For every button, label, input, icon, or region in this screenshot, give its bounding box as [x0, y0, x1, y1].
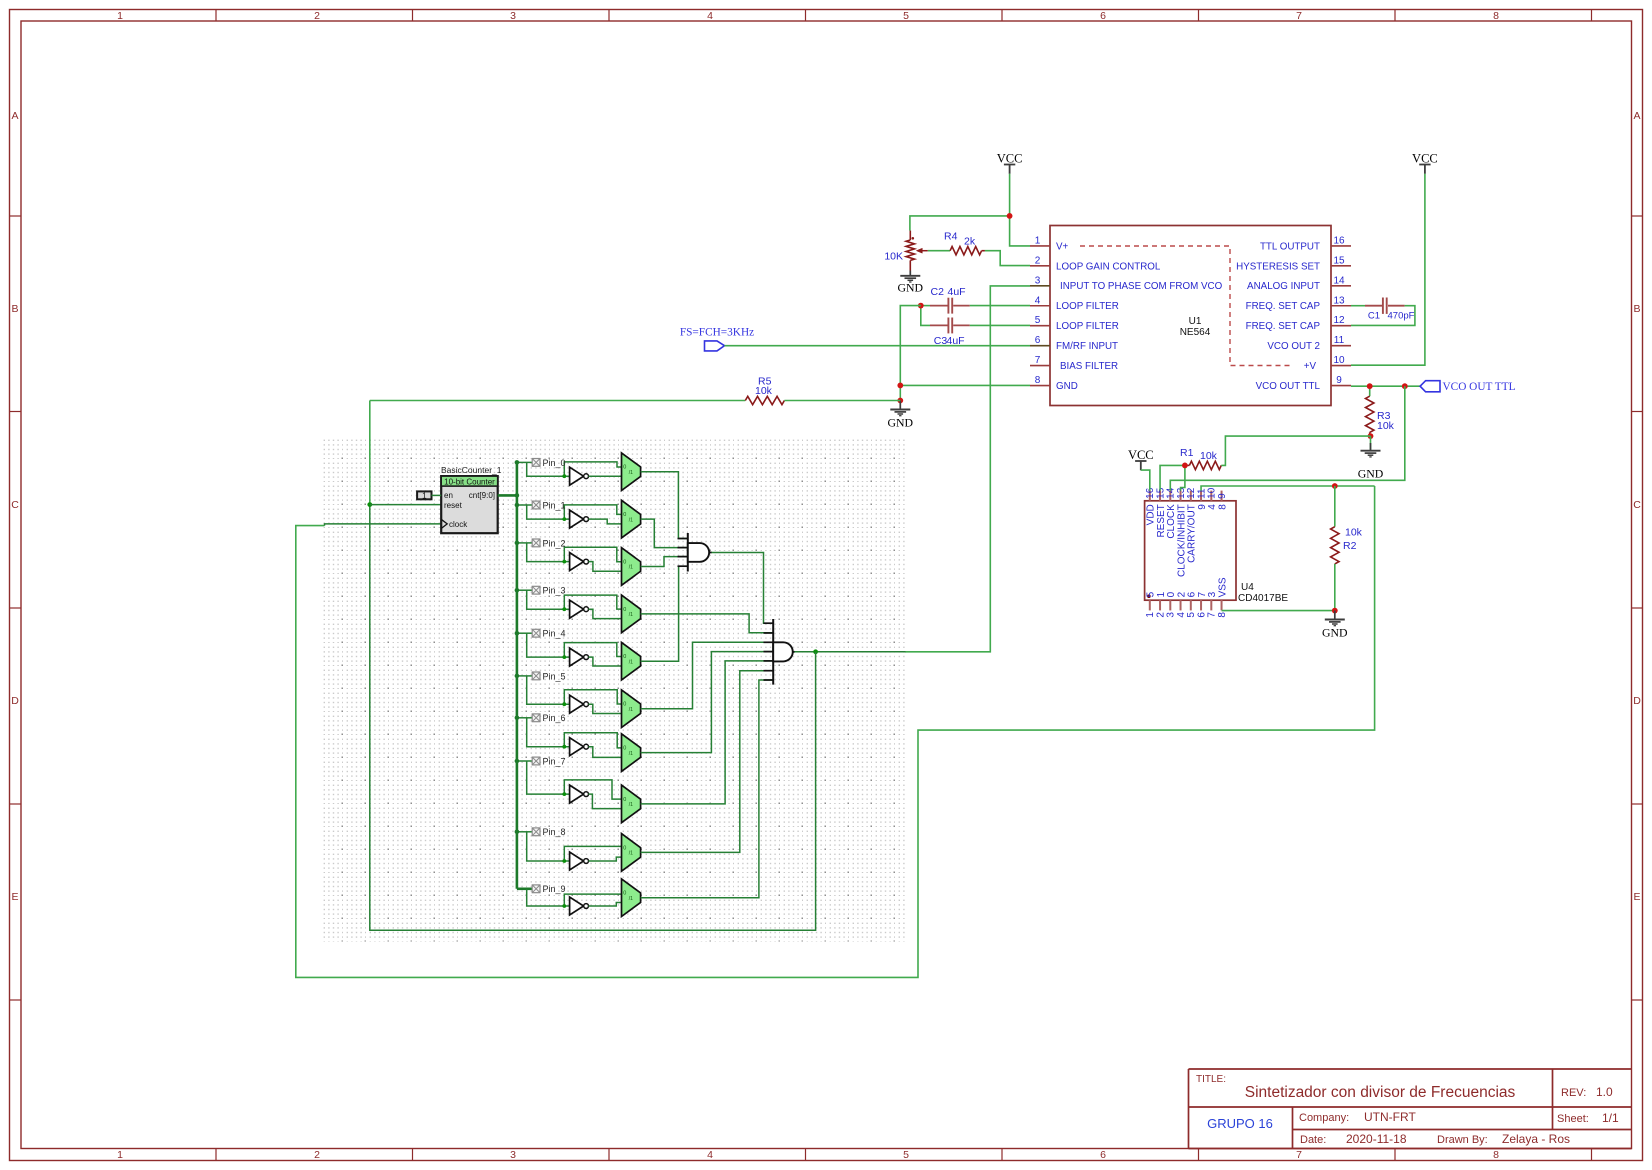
power VCC symbol (U4): [1128, 448, 1154, 470]
svg-text:GRUPO 16: GRUPO 16: [1207, 1116, 1273, 1131]
svg-text:VSS: VSS: [1217, 577, 1228, 597]
junction node R2 top: [1332, 483, 1338, 489]
U1 pin 12 (FREQ. SET CAP): [1246, 315, 1351, 332]
svg-text:10-bit Counter: 10-bit Counter: [444, 477, 495, 486]
wire C-net down to GND / U1 pin 8: [900, 306, 1030, 401]
wire mux1 output: [641, 519, 688, 547]
svg-text:0: 0: [623, 702, 626, 708]
svg-text:U4: U4: [1241, 582, 1254, 593]
multiplexer row 1: [622, 500, 641, 538]
U4 pin 15 (RESET) top: [1155, 487, 1166, 537]
svg-text:/1: /1: [629, 565, 633, 571]
svg-text:VCC: VCC: [997, 152, 1023, 166]
svg-text:8: 8: [1493, 1149, 1499, 1161]
U4 pin 5 (6) bottom: [1186, 591, 1197, 617]
svg-text:en: en: [444, 491, 453, 500]
pin symbol Pin_1: [532, 500, 565, 510]
svg-text:FREQ. SET CAP: FREQ. SET CAP: [1246, 301, 1321, 312]
svg-text:/1: /1: [629, 707, 633, 713]
svg-text:FREQ. SET CAP: FREQ. SET CAP: [1246, 321, 1321, 332]
wire 1-box to en: [432, 494, 442, 496]
svg-text:2: 2: [314, 1149, 320, 1161]
multiplexer row 5: [622, 690, 641, 728]
svg-text:Pin_2: Pin_2: [543, 538, 566, 548]
svg-text:8: 8: [1217, 504, 1228, 510]
svg-text:GND: GND: [888, 416, 914, 430]
inverter (NOT gate) row 9: [570, 897, 589, 915]
U4 pin 6 (7) bottom: [1196, 591, 1207, 617]
inverter (NOT gate) row 5: [570, 695, 589, 713]
svg-text:Drawn By:: Drawn By:: [1437, 1134, 1488, 1146]
svg-text:2: 2: [1035, 255, 1041, 266]
pin symbol Pin_2: [532, 538, 565, 548]
multiplexer row 2: [622, 548, 641, 586]
svg-text:1/1: 1/1: [1602, 1111, 1619, 1125]
wire inverter out row 0: [589, 475, 622, 477]
wire U4 pin 14 CLOCK to VCO junction: [1170, 386, 1405, 490]
junction node bus row 3: [515, 588, 520, 593]
U1 pin 10 (+V): [1304, 355, 1351, 372]
wire VCC to U1 pin 1 and pot: [910, 174, 1030, 246]
svg-text:0: 0: [623, 607, 626, 613]
counter IC U4 CD4017BE body: [1145, 501, 1289, 604]
junction node bus row 4: [515, 631, 520, 636]
wire VCC to U1 pin 10: [1351, 174, 1425, 365]
svg-text:INPUT TO PHASE COM FROM VCO: INPUT TO PHASE COM FROM VCO: [1060, 281, 1223, 292]
svg-text:Pin_1: Pin_1: [543, 500, 566, 510]
U4 pin 4 (2) bottom: [1176, 591, 1187, 617]
svg-text:0: 0: [623, 559, 626, 565]
svg-text:Date:: Date:: [1300, 1134, 1326, 1146]
title block: [1189, 1069, 1632, 1149]
svg-text:8: 8: [1217, 612, 1228, 618]
inverter (NOT gate) row 4: [570, 648, 589, 666]
svg-text:0: 0: [623, 891, 626, 897]
wire inverter out row 8: [589, 857, 622, 861]
power VCC symbol (top middle): [997, 152, 1023, 174]
svg-text:8: 8: [1493, 10, 1499, 22]
wire mux7 output: [641, 661, 774, 804]
svg-text:8: 8: [1035, 375, 1041, 386]
wire inverter out row 3: [589, 609, 622, 618]
svg-text:7: 7: [1296, 10, 1302, 22]
junction node VSS/R2/GND: [1332, 608, 1338, 614]
svg-text:5: 5: [903, 1149, 909, 1161]
U1 pin 9 (VCO OUT TTL): [1256, 375, 1351, 392]
U1 pin 8 (GND): [1030, 375, 1078, 392]
wire mux9 output: [641, 680, 774, 898]
svg-text:E: E: [11, 891, 18, 903]
U4 pin 7 (3) bottom: [1207, 591, 1218, 617]
svg-text:0: 0: [623, 745, 626, 751]
U4 pin 1 (5) bottom: [1145, 591, 1156, 617]
potentiometer RV1 10K: [884, 231, 927, 271]
wire VCC to U4 pin 16 VDD: [1141, 470, 1150, 491]
wire U4 pin 15 RESET to R1: [1160, 465, 1185, 490]
svg-text:0: 0: [623, 465, 626, 471]
pin symbol Pin_3: [532, 586, 565, 596]
svg-text:E: E: [1633, 891, 1640, 903]
U4 pin 11 (9) top: [1196, 488, 1207, 510]
svg-text:GND: GND: [1322, 626, 1348, 640]
wire C3 to U1 pin 5 and to C2 junction: [921, 306, 1030, 326]
junction node row 9: [562, 904, 566, 908]
capacitor C1 470pF: [1365, 298, 1415, 322]
svg-text:/1: /1: [629, 751, 633, 757]
svg-text:R4: R4: [944, 231, 958, 243]
wire bus to Pin_1: [517, 505, 622, 519]
svg-text:5: 5: [1035, 315, 1041, 326]
svg-text:9: 9: [1336, 375, 1342, 386]
svg-text:FS=FCH=3KHz: FS=FCH=3KHz: [680, 327, 754, 339]
svg-text:D: D: [1633, 695, 1641, 707]
multiplexer row 6: [622, 734, 641, 772]
junction node pin8 wire: [897, 383, 903, 389]
wire to counter reset: [370, 504, 441, 506]
wire C1 to U1 pin12: [1351, 306, 1415, 326]
pin symbol Pin_4: [532, 629, 565, 639]
svg-text:BIAS FILTER: BIAS FILTER: [1060, 361, 1118, 372]
svg-text:LOOP FILTER: LOOP FILTER: [1056, 301, 1119, 312]
inverter (NOT gate) row 2: [570, 553, 589, 571]
wire inverter out row 4: [589, 657, 622, 666]
svg-text:TTL OUTPUT: TTL OUTPUT: [1260, 241, 1320, 252]
inverter (NOT gate) row 0: [570, 467, 589, 485]
svg-text:LOOP FILTER: LOOP FILTER: [1056, 321, 1119, 332]
svg-text:10K: 10K: [884, 251, 903, 263]
svg-text:0: 0: [623, 654, 626, 660]
svg-text:9: 9: [1217, 493, 1228, 499]
svg-text:4: 4: [1035, 295, 1041, 306]
resistor R5 10k: [370, 376, 901, 405]
svg-text:15: 15: [1333, 255, 1345, 266]
svg-text:HYSTERESIS SET: HYSTERESIS SET: [1236, 261, 1320, 272]
junction node R5/GND: [897, 398, 903, 404]
wire bus to Pin_0: [517, 462, 622, 476]
svg-text:/1: /1: [629, 896, 633, 902]
U1 pin 1 (V+): [1030, 235, 1069, 252]
wire inverter out row 6: [589, 747, 622, 758]
U4 pin 16 (VDD) top: [1145, 487, 1156, 525]
wire bus to Pin_9: [517, 889, 622, 906]
svg-text:B: B: [11, 303, 18, 315]
U1 pin 6 (FM/RF INPUT): [1030, 335, 1118, 352]
constant 1 box: [417, 491, 431, 500]
wire mux2 output: [641, 557, 688, 567]
junction node R3 top: [1367, 383, 1373, 389]
svg-text:TITLE:: TITLE:: [1196, 1074, 1226, 1085]
wire inverter out row 1: [589, 519, 622, 524]
svg-text:Company:: Company:: [1299, 1112, 1349, 1124]
svg-text:4: 4: [707, 1149, 713, 1161]
block BasicCounter_1 10-bit Counter: [441, 465, 502, 533]
multiplexer row 9: [622, 879, 641, 917]
wire mux3 output: [641, 614, 774, 633]
svg-text:ANALOG INPUT: ANALOG INPUT: [1247, 281, 1320, 292]
svg-text:2k: 2k: [964, 236, 976, 248]
ground GND below R5 junction: [888, 401, 914, 430]
wire U4 pin 11 (out 9) to R2 and feedback: [1201, 486, 1375, 491]
wire C2 to U1 pin 4: [921, 305, 1030, 307]
junction node bus row 7: [515, 759, 520, 764]
svg-text:VCC: VCC: [1412, 152, 1438, 166]
inverter (NOT gate) row 6: [570, 738, 589, 756]
svg-text:Pin_9: Pin_9: [543, 884, 566, 894]
output port VCO OUT TTL: [1420, 381, 1516, 393]
U4 pin 3 (0) bottom: [1166, 591, 1177, 617]
svg-text:6: 6: [1035, 335, 1041, 346]
svg-text:D: D: [11, 695, 19, 707]
svg-text:CARRY/OUT: CARRY/OUT: [1187, 504, 1198, 563]
svg-text:2: 2: [314, 10, 320, 22]
svg-text:CD4017BE: CD4017BE: [1238, 593, 1288, 604]
inverter (NOT gate) row 1: [570, 510, 589, 528]
svg-text:1: 1: [117, 1149, 123, 1161]
svg-text:3: 3: [1035, 275, 1041, 286]
junction node reset: [367, 502, 372, 507]
svg-text:A: A: [1633, 110, 1640, 122]
junction node bus row 2: [515, 541, 520, 546]
U1 pin 14 (ANALOG INPUT): [1247, 275, 1351, 292]
svg-text:C1: C1: [1368, 311, 1380, 322]
resistor R2 10k: [1331, 486, 1363, 611]
svg-text:1: 1: [117, 10, 123, 22]
wire U1 pin13 to C1: [1351, 305, 1365, 307]
junction node bus row 8: [515, 830, 520, 835]
junction node R1 left: [1182, 463, 1188, 469]
wire bus to Pin_8: [517, 832, 622, 861]
U4 pin 9 (8) top: [1217, 491, 1228, 510]
svg-text:Pin_4: Pin_4: [543, 629, 566, 639]
svg-text:Sintetizador con divisor de Fr: Sintetizador con divisor de Frecuencias: [1245, 1084, 1516, 1101]
junction node row 0: [562, 474, 566, 478]
inverter (NOT gate) row 8: [570, 852, 589, 870]
ground GND below U4: [1322, 611, 1348, 640]
svg-text:1.0: 1.0: [1596, 1085, 1613, 1099]
wire big AND output right: [793, 651, 906, 653]
svg-text:2020-11-18: 2020-11-18: [1346, 1132, 1407, 1146]
svg-text:3: 3: [510, 10, 516, 22]
wire FS port to U1 pin 6: [725, 345, 1031, 347]
svg-text:C2: C2: [931, 286, 945, 298]
wire mux6 output: [641, 652, 774, 753]
junction node VCO port: [1402, 383, 1408, 389]
U1 pin 3 (INPUT TO PHASE COM FROM VCO): [1030, 275, 1223, 292]
junction node row 4: [562, 655, 566, 659]
wire bus to Pin_5: [517, 676, 622, 704]
junction node row 8: [562, 859, 566, 863]
svg-text:GND: GND: [898, 281, 924, 295]
svg-text:Zelaya - Ros: Zelaya - Ros: [1502, 1132, 1570, 1146]
dotted grid canvas region: [320, 437, 905, 942]
wire bus to Pin_6: [517, 718, 622, 748]
svg-text:VCO OUT TTL: VCO OUT TTL: [1256, 381, 1321, 392]
svg-text:U1: U1: [1189, 316, 1202, 327]
svg-text:10k: 10k: [755, 385, 773, 397]
pin symbol Pin_0: [532, 458, 565, 468]
wire U1 pin3 to big AND output: [905, 286, 1030, 652]
svg-text:VCO OUT 2: VCO OUT 2: [1267, 341, 1320, 352]
wire bus to Pin_4: [517, 633, 622, 657]
svg-text:0: 0: [623, 512, 626, 518]
svg-text:12: 12: [1333, 315, 1345, 326]
junction node row 3: [562, 607, 566, 611]
svg-text:Sheet:: Sheet:: [1557, 1113, 1589, 1125]
op-amp/PLL IC U1 NE564 body: [1050, 226, 1331, 406]
svg-text:VCC: VCC: [1128, 448, 1154, 462]
svg-text:Pin_6: Pin_6: [543, 713, 566, 723]
svg-text:BasicCounter_1: BasicCounter_1: [441, 465, 502, 475]
svg-text:R1: R1: [1180, 447, 1194, 459]
wire mux0 output: [641, 472, 688, 539]
resistor R4 2k: [928, 231, 985, 255]
svg-text:1: 1: [422, 491, 427, 500]
U1 pin 13 (FREQ. SET CAP): [1246, 295, 1351, 312]
svg-text:VCO OUT TTL: VCO OUT TTL: [1443, 381, 1516, 393]
multiplexer row 4: [622, 642, 641, 680]
resistor R1 10k: [1180, 447, 1221, 470]
svg-text:cnt[9:0]: cnt[9:0]: [469, 491, 495, 500]
svg-text:5: 5: [903, 10, 909, 22]
svg-text:7: 7: [1035, 355, 1041, 366]
wire R4 to U1 pin 2: [985, 251, 1030, 266]
svg-text:REV:: REV:: [1561, 1087, 1586, 1099]
svg-text:Pin_0: Pin_0: [543, 458, 566, 468]
wire inverter out row 9: [589, 902, 622, 906]
svg-text:10k: 10k: [1200, 450, 1218, 462]
svg-text:10k: 10k: [1345, 527, 1363, 539]
ground GND below R3: [1358, 436, 1384, 480]
svg-text:6: 6: [1100, 1149, 1106, 1161]
U1 pin 11 (VCO OUT 2): [1267, 335, 1351, 352]
wire mux5 output: [641, 642, 774, 708]
U4 pin 12 (CARRY/OUT) top: [1186, 487, 1197, 563]
U4 pin 2 (1) bottom: [1155, 591, 1166, 617]
svg-text:V+: V+: [1056, 241, 1069, 252]
junction node bus row 5: [515, 674, 520, 679]
wire big AND output feedback to R5/reset: [370, 401, 816, 931]
AND gate (7-input) U3: [764, 619, 795, 685]
resistor R3 10k: [1366, 386, 1395, 436]
wire R1 right to GND net: [1221, 436, 1370, 465]
pin symbol Pin_8: [532, 827, 565, 837]
svg-text:FM/RF INPUT: FM/RF INPUT: [1056, 341, 1118, 352]
multiplexer row 8: [622, 834, 641, 872]
svg-text:/1: /1: [629, 612, 633, 618]
svg-text:470pF: 470pF: [1388, 311, 1415, 322]
svg-text:10k: 10k: [1377, 420, 1395, 432]
wire inverter out row 7: [589, 794, 622, 809]
wire clock feedback from U4 out to counter clock: [296, 486, 1375, 977]
junction node C2/C3: [918, 303, 924, 309]
junction node bus row 1: [515, 503, 520, 508]
svg-text:R2: R2: [1343, 540, 1357, 552]
wire U4 pin 8 VSS to GND: [1222, 610, 1335, 612]
wire inverter out row 5: [589, 704, 622, 713]
svg-text:10: 10: [1333, 355, 1345, 366]
U1 pin 5 (LOOP FILTER): [1030, 315, 1119, 332]
U1 pin 4 (LOOP FILTER): [1030, 295, 1119, 312]
wire bus to Pin_2: [517, 543, 622, 562]
junction node row 6: [562, 745, 566, 749]
junction node big AND output: [813, 649, 818, 654]
svg-text:reset: reset: [444, 501, 463, 510]
svg-text:/1: /1: [629, 851, 633, 857]
svg-text:/1: /1: [629, 517, 633, 523]
svg-text:Pin_3: Pin_3: [543, 586, 566, 596]
svg-text:0: 0: [623, 797, 626, 803]
junction node R3 bottom / R1 / GND: [1368, 433, 1374, 439]
U4 pin 8 (VSS) bottom: [1217, 577, 1228, 618]
wire R1 junction to U4 pin 13 CLOCK/INHIBIT: [1181, 465, 1185, 490]
wire AND1 out to big AND: [712, 552, 774, 623]
power VCC symbol (top right): [1412, 152, 1438, 174]
wire inverter out row 2: [589, 562, 622, 572]
junction node bus counter out: [515, 493, 520, 498]
pin symbol Pin_6: [532, 713, 565, 723]
junction node row 1: [562, 517, 566, 521]
ground GND below potentiometer: [898, 271, 924, 295]
wire bus to Pin_3: [517, 590, 622, 609]
svg-text:11: 11: [1334, 335, 1345, 346]
pin symbol Pin_7: [532, 756, 565, 766]
svg-text:B: B: [1633, 303, 1640, 315]
svg-text:0: 0: [623, 845, 626, 851]
capacitor C2 4uF: [930, 286, 970, 314]
inverter (NOT gate) row 3: [570, 600, 589, 618]
svg-text:Pin_5: Pin_5: [543, 671, 566, 681]
svg-text:3: 3: [510, 1149, 516, 1161]
junction node row 7: [562, 792, 566, 796]
U1 pin 15 (HYSTERESIS SET): [1236, 255, 1351, 272]
inverter (NOT gate) row 7: [570, 785, 589, 803]
svg-text:NE564: NE564: [1180, 327, 1211, 338]
svg-text:7: 7: [1296, 1149, 1302, 1161]
wire bus to Pin_7: [517, 761, 622, 799]
wire U1 pin 9 to VCO OUT TTL port: [1351, 385, 1420, 387]
junction node bus row 0: [515, 460, 520, 465]
svg-text:4: 4: [707, 10, 713, 22]
svg-text:A: A: [11, 110, 18, 122]
svg-text:/1: /1: [629, 802, 633, 808]
svg-text:clock: clock: [449, 520, 468, 529]
svg-text:1: 1: [1035, 235, 1041, 246]
U1 pin 16 (TTL OUTPUT): [1260, 235, 1351, 252]
wire mux4 output: [641, 566, 688, 661]
svg-text:C: C: [1633, 499, 1641, 511]
multiplexer row 7: [622, 785, 641, 823]
pin symbol Pin_5: [532, 671, 565, 681]
junction node row 2: [562, 560, 566, 564]
svg-text:16: 16: [1333, 235, 1345, 246]
svg-text:C: C: [11, 499, 19, 511]
svg-text:Pin_7: Pin_7: [543, 756, 566, 766]
junction node bus row 6: [515, 716, 520, 721]
U4 pin 14 (CLOCK) top: [1166, 487, 1177, 538]
pin symbol Pin_9: [532, 884, 565, 894]
svg-text:/1: /1: [629, 470, 633, 476]
svg-text:14: 14: [1333, 275, 1345, 286]
capacitor C3 4uF: [930, 318, 970, 348]
svg-text:/1: /1: [629, 659, 633, 665]
U4 pin 10 (4) top: [1207, 487, 1218, 510]
input port FS=FCH=3KHz: [680, 327, 754, 351]
svg-text:+V: +V: [1304, 361, 1317, 372]
multiplexer row 3: [622, 595, 641, 633]
svg-text:4uF: 4uF: [948, 286, 966, 298]
svg-text:6: 6: [1100, 10, 1106, 22]
junction node VCC/R4/pot: [1007, 213, 1013, 219]
